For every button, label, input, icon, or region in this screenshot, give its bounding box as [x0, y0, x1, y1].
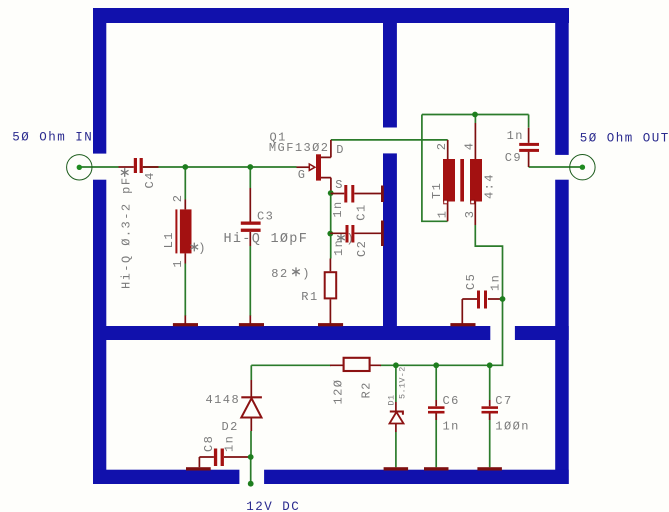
- GROUND CONTACTS middle wall: [173, 323, 502, 470]
- svg-text:C1: C1: [355, 203, 369, 220]
- wire L1 branch bottom: [184, 264, 186, 317]
- node junction D1: [393, 362, 399, 368]
- svg-text:4148: 4148: [206, 393, 241, 407]
- capacitor C3: [224, 188, 356, 324]
- ground L1: [173, 323, 198, 326]
- wire D1 top: [395, 365, 397, 402]
- wire T1 top rail: [422, 114, 529, 116]
- shield wall left lower: [93, 180, 106, 484]
- svg-text:1n: 1n: [507, 129, 524, 143]
- node junction C6: [433, 362, 439, 368]
- shield wall inner vertical lower: [383, 153, 397, 340]
- connector X2 pin dot: [580, 165, 585, 170]
- svg-text:C6: C6: [443, 394, 460, 408]
- svg-text:): ): [198, 242, 207, 256]
- svg-text:2: 2: [171, 194, 185, 203]
- capacitor C6: [428, 394, 460, 433]
- shield wall right lower: [555, 180, 569, 484]
- svg-text:C9: C9: [505, 151, 522, 165]
- svg-text:R2: R2: [360, 381, 374, 398]
- capacitor C5: [462, 273, 502, 324]
- wire C9 top: [528, 115, 530, 128]
- svg-text:D: D: [336, 143, 345, 157]
- svg-text:C8: C8: [202, 435, 216, 452]
- capacitor C9: [505, 128, 539, 167]
- diode D1 zener 5.1V: [387, 366, 408, 432]
- svg-text:1: 1: [436, 210, 450, 219]
- svg-text:1n: 1n: [223, 435, 237, 452]
- svg-text:R1: R1: [301, 290, 318, 304]
- ground C8: [186, 467, 211, 470]
- wire C9 to output: [529, 166, 583, 168]
- svg-text:3: 3: [463, 210, 477, 219]
- svg-text:C3: C3: [257, 209, 274, 223]
- wire input main: [79, 166, 296, 168]
- capacitor C1: [331, 185, 384, 221]
- svg-text:1n: 1n: [331, 200, 345, 217]
- svg-text:5Ø Ohm IN: 5Ø Ohm IN: [12, 131, 93, 145]
- resistor R1: [271, 259, 336, 324]
- node junction C8-D2: [248, 454, 254, 460]
- ground C3: [239, 323, 264, 326]
- svg-text:1n: 1n: [332, 239, 346, 256]
- wire C3 branch top: [249, 167, 251, 188]
- wire 12V feed: [250, 457, 252, 484]
- svg-text:C2: C2: [355, 240, 369, 257]
- node junction source-C2: [327, 231, 333, 237]
- wire drain to T1 pin2: [331, 139, 448, 141]
- wire T1 left loop: [422, 115, 448, 222]
- capacitor C7: [482, 394, 530, 433]
- svg-text:S: S: [335, 178, 344, 192]
- diode D2 4148: [206, 380, 262, 434]
- svg-text:C4: C4: [143, 171, 157, 188]
- svg-text:4:4: 4:4: [483, 173, 497, 199]
- shield wall top: [93, 8, 569, 23]
- svg-text:1ØØn: 1ØØn: [495, 419, 530, 433]
- wire C3 branch bottom: [249, 246, 251, 316]
- node junction T1 top: [472, 112, 478, 118]
- svg-text:L1: L1: [162, 231, 176, 248]
- svg-text:4: 4: [463, 142, 477, 151]
- ground C5: [450, 323, 475, 326]
- svg-text:12Ø: 12Ø: [332, 379, 346, 405]
- connector X1 pin dot: [77, 165, 82, 170]
- node junction C7: [487, 362, 493, 368]
- svg-text:1: 1: [171, 259, 185, 268]
- ground C6: [424, 467, 449, 470]
- wire C5 node down through wall gap: [490, 299, 503, 365]
- svg-text:G: G: [298, 168, 307, 182]
- wire D2 top: [250, 365, 252, 380]
- shield wall middle right: [515, 326, 569, 340]
- ground R1: [318, 323, 343, 326]
- wire source node: [330, 193, 332, 258]
- node 12V DC pin: [248, 481, 254, 487]
- node junction input-L1: [182, 164, 188, 170]
- capacitor C8: [199, 435, 250, 468]
- shield wall middle left: [93, 326, 490, 340]
- svg-text:12V DC: 12V DC: [246, 500, 300, 512]
- svg-text:5.1V-2: 5.1V-2: [398, 366, 408, 399]
- wire T1 pin3 down: [475, 225, 502, 299]
- transformer T1: [430, 123, 497, 225]
- svg-text:MGF13Ø2: MGF13Ø2: [269, 141, 330, 155]
- wire D1 bottom: [395, 432, 397, 467]
- node junction source-C1: [328, 190, 334, 196]
- svg-text:Hi-Q 1ØpF: Hi-Q 1ØpF: [224, 232, 309, 247]
- shield wall bottom left: [93, 470, 239, 484]
- capacitor C4: [119, 158, 159, 289]
- svg-text:D2: D2: [222, 420, 239, 434]
- connector X1 input circle: [67, 155, 92, 180]
- svg-text:Hi-Q Ø.3-2 pF: Hi-Q Ø.3-2 pF: [120, 177, 134, 289]
- shield wall inner vertical upper: [383, 23, 397, 128]
- wire C7 bottom: [489, 413, 491, 467]
- svg-text:5Ø Ohm OUT: 5Ø Ohm OUT: [580, 131, 669, 145]
- ground C7: [477, 467, 502, 470]
- capacitor C2: [330, 221, 384, 258]
- wire C7 top: [489, 365, 491, 400]
- wire L1 branch top: [184, 167, 186, 200]
- svg-text:C7: C7: [495, 394, 512, 408]
- WALLS: [93, 8, 569, 484]
- svg-text:): ): [302, 267, 311, 281]
- svg-text:D1: D1: [387, 395, 397, 406]
- node junction C5: [500, 296, 506, 302]
- wire C6 top: [435, 365, 437, 400]
- resistor R2: [330, 358, 381, 405]
- svg-text:82: 82: [271, 267, 288, 281]
- wire T1 pin4 up: [474, 115, 476, 124]
- node junction input-C3: [247, 164, 253, 170]
- inductor L1: [162, 194, 207, 324]
- connector X2 output circle: [570, 155, 595, 180]
- wire C6 bottom: [435, 413, 437, 467]
- svg-text:1n: 1n: [443, 419, 460, 433]
- svg-text:T1: T1: [430, 182, 444, 199]
- svg-text:C5: C5: [464, 273, 478, 290]
- svg-text:2: 2: [435, 142, 449, 151]
- svg-text:1n: 1n: [489, 274, 503, 291]
- wire D2 bottom to C8 node: [250, 431, 252, 457]
- shield wall bottom right: [264, 470, 569, 484]
- transistor Q1 MGF1302: [269, 130, 345, 193]
- shield wall left upper: [93, 23, 106, 154]
- wire bottom rail: [251, 364, 489, 366]
- ground D1: [384, 467, 409, 470]
- shield wall right upper: [555, 23, 569, 155]
